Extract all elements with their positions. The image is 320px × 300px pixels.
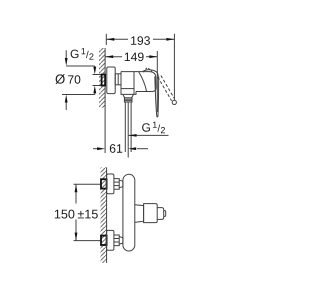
dimension O70 extension lines	[66, 65, 95, 67]
G 1/2 label (bottom of top view) with leader	[142, 122, 165, 134]
dimension 149	[105, 51, 157, 112]
supply square (top view, dark)	[102, 75, 106, 86]
dimension 193	[106, 34, 174, 101]
handle cap	[157, 208, 164, 220]
handle end bump	[164, 211, 166, 217]
dimension 150 +-15	[55, 184, 101, 240]
O70 arrows (outside, vertical at x=66.2)	[65, 50, 67, 59]
circle at dashed lever tip	[172, 100, 176, 104]
lever blade	[155, 76, 159, 117]
wall (top view) hatching	[99, 48, 105, 108]
fitting extension ticks	[93, 74, 102, 76]
G 1/2 label (top left)	[71, 48, 94, 60]
union nut 1	[114, 179, 119, 190]
O 70 text	[55, 74, 80, 84]
outlet pipe	[124, 102, 126, 152]
cone 2	[119, 237, 123, 245]
supply square 1 (dark)	[101, 179, 107, 188]
wall face line (top view)	[104, 48, 106, 153]
G1/2 dimension vertical (at x=94.8) with arrows to fitting	[94, 66, 96, 68]
supply square 2 (dark)	[101, 236, 107, 245]
wall (bottom view) hatching	[100, 167, 106, 263]
handle neck	[135, 205, 144, 223]
body capsule (bottom view)	[123, 174, 135, 251]
cone 1	[119, 180, 123, 188]
dashed lever blade (raised position)	[158, 77, 172, 101]
dimension 61	[93, 144, 148, 153]
body lower step	[134, 92, 136, 95]
escutcheon (top view)	[107, 67, 115, 94]
escutcheon 2	[107, 230, 114, 250]
union nut 2	[114, 235, 119, 246]
dashed lever raised heel	[143, 67, 152, 72]
handle main	[144, 204, 158, 223]
union nut (top view)	[115, 74, 121, 85]
outlet nut ribs	[124, 98, 132, 102]
escutcheon 1	[107, 174, 114, 194]
lever (solid, top view)	[143, 70, 159, 77]
wall face line (bottom view)	[106, 167, 108, 263]
body mid section (top view)	[121, 72, 134, 95]
front housing (top view)	[134, 72, 156, 92]
outlet stub below body	[123, 94, 133, 97]
